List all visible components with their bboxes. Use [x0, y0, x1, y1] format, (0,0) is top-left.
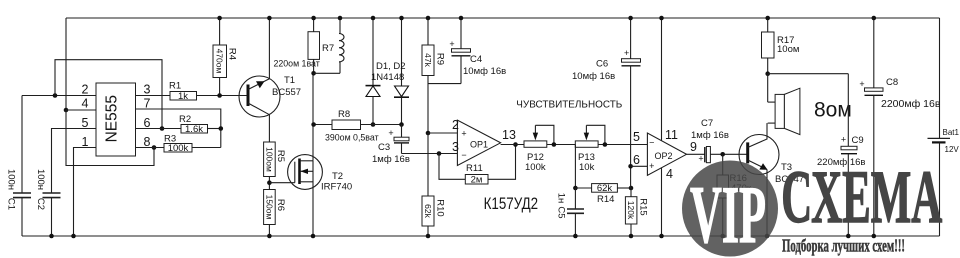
wire: bottom ground rail [22, 235, 940, 237]
wire: speaker node over to C9 [768, 73, 849, 75]
svg-text:NE555: NE555 [104, 95, 121, 142]
svg-text:1: 1 [82, 135, 89, 149]
capacitor C7 1uF 16v (series) [691, 118, 729, 164]
resistor R2 1.6k [179, 114, 221, 135]
svg-text:10k: 10k [579, 162, 595, 173]
resistor R4 470om (vertical) [213, 18, 238, 96]
svg-text:6: 6 [633, 153, 640, 167]
resistor R5 100om (vertical) [264, 142, 287, 190]
resistor R6 150om (vertical) [264, 190, 287, 237]
wire: gate wire to T2 [269, 182, 294, 184]
node: junction pin4/supply [64, 108, 69, 113]
node: junction P13 wiper/line [603, 142, 608, 147]
wire: supply loop down to pin 8 [66, 110, 154, 166]
node: junction pin8 [152, 145, 157, 150]
wire: OP2 pin11 to rail [661, 18, 663, 141]
node: junction pin2/loop [53, 93, 58, 98]
node: junction D1/R8 line [371, 122, 376, 127]
node: junction R17/speaker/C9 [765, 71, 770, 76]
svg-text:2м: 2м [471, 174, 483, 185]
svg-text:C2: C2 [35, 198, 46, 210]
svg-text:8ом: 8ом [814, 99, 852, 122]
svg-text:6: 6 [144, 116, 151, 130]
resistor R11 2M feedback [439, 145, 516, 186]
node: junction R8 line / R4 drop [311, 122, 316, 127]
node: junction pin6/C6 line [628, 164, 633, 169]
svg-text:9: 9 [690, 140, 697, 154]
svg-text:7: 7 [144, 97, 151, 111]
resistor R16 470k (vertical) [717, 154, 752, 236]
svg-text:ЧУВСТВИТЕЛЬНОСТЬ: ЧУВСТВИТЕЛЬНОСТЬ [516, 99, 622, 111]
capacitor C5 1n [556, 188, 585, 236]
svg-text:C5: C5 [556, 206, 567, 218]
svg-text:3: 3 [452, 140, 459, 154]
resistor R9 47k (vertical) [422, 18, 446, 133]
node: junction C5/ground [573, 234, 578, 239]
svg-text:1н: 1н [556, 193, 567, 204]
svg-text:СХЕМА: СХЕМА [781, 156, 942, 239]
wire: OP2 pin6 line [631, 165, 648, 167]
capacitor C6 10uF 16v [572, 18, 641, 188]
node: junction R6/ground rail [267, 234, 272, 239]
node: junction R15/ground [629, 234, 634, 239]
svg-text:C6: C6 [596, 59, 608, 70]
transistor T2 IRF740 (N-MOSFET) [288, 73, 353, 236]
svg-text:R10: R10 [435, 199, 446, 216]
svg-text:+: + [624, 48, 629, 58]
node: junction R2 right / pin7 drop [219, 126, 224, 131]
resistor R1 1k [136, 81, 248, 103]
capacitor C1 100n [6, 96, 31, 237]
svg-text:2: 2 [82, 83, 89, 97]
wire: pin2 line to C1 [22, 95, 96, 97]
node: junction pin6/loop [160, 126, 165, 131]
node: junction C8/ground [872, 234, 877, 239]
svg-text:10мф 16в: 10мф 16в [463, 66, 506, 77]
node: junction pin1 wire/ground rail [71, 234, 76, 239]
potentiometer P12 100k [524, 125, 575, 173]
svg-text:VIP: VIP [690, 169, 766, 258]
wire: top supply rail [66, 17, 940, 19]
node: junction rail/L1 [338, 16, 343, 21]
resistor R14 62k [575, 183, 631, 205]
node: junction rail/R9 [426, 16, 431, 21]
IC U1 NE555 body [96, 83, 136, 156]
svg-text:11: 11 [665, 128, 678, 142]
svg-text:R15: R15 [638, 198, 649, 215]
resistor R15 120k (vertical) [625, 188, 648, 236]
wire: bias to OP1 pin2 [428, 132, 457, 134]
svg-text:C4: C4 [470, 54, 482, 65]
potentiometer P13 10k [575, 125, 647, 173]
wire: OP1 output signal line [501, 144, 525, 146]
svg-text:10мф 16в: 10мф 16в [572, 71, 615, 82]
svg-text:120k: 120k [626, 201, 636, 220]
svg-text:C9: C9 [852, 135, 864, 146]
op-amp OP2 (K157UD2 half) [647, 133, 686, 175]
svg-text:R8: R8 [338, 109, 350, 120]
svg-text:3: 3 [144, 83, 151, 97]
wire: C7 to T3 base [710, 153, 747, 155]
svg-text:2200мф 16в: 2200мф 16в [881, 98, 941, 110]
svg-text:62k: 62k [423, 204, 433, 218]
resistor R8 390om 0.5vat [314, 109, 402, 143]
svg-text:T1: T1 [284, 75, 295, 86]
resistor R3 100k [164, 134, 221, 155]
svg-text:+: + [698, 154, 703, 164]
svg-text:Подборка лучших схем!!!: Подборка лучших схем!!! [782, 236, 905, 256]
svg-text:OP1: OP1 [470, 140, 488, 150]
capacitor C3 1uF 16v [372, 125, 410, 166]
wire: pin8 line [136, 147, 165, 149]
svg-text:470ом: 470ом [215, 49, 225, 74]
wire: pin1 down to ground [74, 148, 97, 237]
node: junction rail/C8 [872, 16, 877, 21]
capacitor C9 220uF 16v [817, 74, 865, 236]
resistor R10 62k (vertical) [422, 133, 446, 236]
node: junction C9/ground [846, 234, 851, 239]
node: junction R16/base line [720, 152, 725, 157]
node: junction D2 / C3 [399, 122, 404, 127]
svg-text:C8: C8 [886, 77, 898, 88]
svg-text:R4: R4 [227, 48, 238, 60]
battery Bat1 12V [928, 18, 960, 236]
wire: pin6 line [136, 128, 182, 130]
svg-text:4: 4 [666, 167, 673, 181]
speaker 8om [768, 74, 852, 135]
node: junction top rail / R4 [217, 16, 222, 21]
node: junction T3 emitter/ground [765, 234, 770, 239]
wire: C3 to OP1 pin3 [402, 153, 458, 155]
svg-text:47k: 47k [423, 53, 433, 67]
svg-text:−: − [461, 150, 466, 160]
svg-text:C3: C3 [378, 142, 390, 153]
svg-text:К157УД2: К157УД2 [484, 194, 538, 213]
svg-text:R11: R11 [466, 163, 483, 174]
watermark: VIP circle [682, 161, 778, 257]
svg-text:13: 13 [502, 128, 516, 142]
svg-text:8: 8 [144, 135, 151, 149]
transistor T3 BC547 (NPN) [739, 123, 804, 236]
capacitor C4 10uF 16v [428, 18, 506, 84]
capacitor C8 2200uF 16v [859, 18, 940, 236]
svg-text:R6: R6 [275, 199, 286, 211]
svg-text:C1: C1 [6, 198, 17, 210]
svg-text:+: + [841, 135, 846, 145]
svg-text:R7: R7 [322, 43, 334, 54]
svg-text:R14: R14 [597, 194, 614, 205]
svg-text:+: + [388, 128, 393, 138]
svg-text:4: 4 [82, 97, 89, 111]
svg-text:R5: R5 [275, 150, 286, 162]
capacitor C2 100n [35, 169, 61, 238]
wire: pin7 over to R2/R3 right side [136, 109, 221, 148]
node: junction rail/R7 [311, 16, 316, 21]
node: junction rail/pin11 [659, 16, 664, 21]
node: junction rail/C4 [459, 16, 464, 21]
svg-text:T2: T2 [332, 171, 343, 182]
transistor T1 BC557 (PNP) [239, 18, 301, 142]
svg-text:5: 5 [82, 116, 89, 130]
svg-text:Bat1: Bat1 [943, 128, 960, 137]
svg-text:1N4148: 1N4148 [371, 72, 404, 83]
wire: supply drop to NE555 pin 4 [65, 18, 67, 110]
resistor R7 (vertical, 220om 1vat) [308, 18, 334, 73]
node: junction T2 source / ground [311, 234, 316, 239]
svg-text:150ом: 150ом [264, 195, 274, 220]
node: junction R7/L/drain [311, 71, 316, 76]
svg-text:390ом 0,5ват: 390ом 0,5ват [325, 133, 379, 143]
node: junction rail/R17 [765, 16, 770, 21]
svg-text:10ом: 10ом [777, 44, 799, 55]
node: junction R4 / base line [217, 93, 222, 98]
svg-text:+: + [449, 39, 454, 49]
wire: pin4 to IC [66, 109, 96, 111]
svg-text:+: + [649, 161, 654, 171]
diode D1 1N4148 [366, 18, 381, 125]
node: junction C5/R14 [573, 186, 578, 191]
svg-text:100ом: 100ом [264, 147, 274, 172]
node: junction rail/D2 [399, 16, 404, 21]
svg-text:1мф 16в: 1мф 16в [372, 154, 410, 165]
wire: OP2 output [687, 153, 705, 155]
node: junction R16/ground [720, 234, 725, 239]
svg-text:62k: 62k [597, 183, 613, 194]
node: junction pin4/ground [659, 234, 664, 239]
wire: loop pin2 over IC to pin6 [55, 60, 162, 129]
node: junction output/R11 [513, 142, 518, 147]
svg-text:1мф 16в: 1мф 16в [691, 130, 729, 141]
svg-text:BC557: BC557 [272, 87, 301, 98]
svg-text:100н: 100н [6, 169, 17, 190]
node: junction R10/ground [426, 234, 431, 239]
svg-text:OP2: OP2 [655, 151, 673, 161]
svg-text:5: 5 [633, 130, 640, 144]
node: junction R9-R10 / OP1 pin2 [426, 131, 431, 136]
svg-text:1k: 1k [178, 91, 188, 102]
node: junction rail/C6 [628, 16, 633, 21]
svg-text:12V: 12V [945, 145, 960, 154]
svg-text:100k: 100k [525, 162, 546, 173]
svg-text:+: + [859, 79, 864, 89]
inductor L1 [314, 18, 344, 73]
svg-text:+: + [461, 129, 466, 139]
diode D2 1N4148 [394, 18, 409, 125]
svg-text:1.6k: 1.6k [185, 124, 203, 135]
node: junction P12 wiper/line [552, 142, 557, 147]
node: junction rail/D1 [371, 16, 376, 21]
node: junction R14/R15/pin6 [629, 186, 634, 191]
svg-text:100н: 100н [35, 169, 46, 190]
svg-text:−: − [649, 138, 654, 148]
node: junction C3/R11 tap [437, 151, 442, 156]
node: junction R5/R6/gate [267, 180, 272, 185]
op-amp OP1 (K157UD2 half) [457, 120, 500, 165]
svg-text:R1: R1 [169, 81, 181, 92]
wire: drop from P13 left to R14 node [574, 145, 576, 189]
wire: OP2 pin4 to ground [661, 168, 663, 236]
svg-text:D1, D2: D1, D2 [376, 61, 406, 72]
svg-text:C7: C7 [701, 118, 713, 129]
svg-text:R9: R9 [435, 53, 446, 65]
svg-text:2: 2 [452, 118, 459, 132]
svg-text:IRF740: IRF740 [321, 182, 352, 193]
wire: pin5 down to C2 [52, 129, 97, 193]
svg-text:100k: 100k [168, 143, 189, 154]
node: junction top rail / T1 emitter [267, 16, 272, 21]
resistor R17 10om (vertical) [762, 18, 800, 74]
